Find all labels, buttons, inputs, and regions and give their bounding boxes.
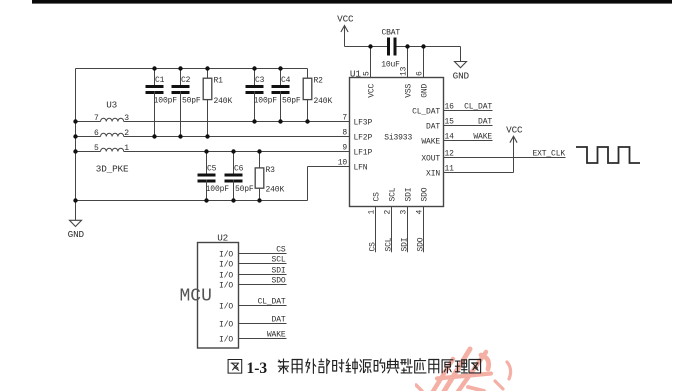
svg-text:CL_DAT: CL_DAT bbox=[412, 107, 440, 116]
junction pin6/rail bbox=[421, 44, 425, 48]
svg-text:CL_DAT: CL_DAT bbox=[464, 103, 492, 112]
svg-text:3: 3 bbox=[124, 114, 129, 123]
junction C3/row7 bbox=[252, 119, 256, 123]
svg-text:LF2P: LF2P bbox=[354, 133, 373, 142]
svg-text:WAKE: WAKE bbox=[473, 133, 492, 142]
pin number 12 bbox=[445, 150, 455, 159]
junction rail/row9 bbox=[73, 149, 77, 153]
power VCC right bbox=[506, 125, 523, 144]
svg-text:I/O: I/O bbox=[219, 320, 233, 329]
pin number 9 bbox=[342, 144, 347, 153]
wire net EXT_CLK from XOUT bbox=[444, 150, 566, 159]
reference U3 bbox=[106, 100, 117, 111]
capacitor C3 100pF bbox=[246, 69, 278, 122]
svg-text:Si3933: Si3933 bbox=[384, 134, 412, 143]
svg-text:VCC: VCC bbox=[368, 83, 377, 97]
wire net CS (MCU) bbox=[239, 246, 287, 255]
wire U1 pin5 VCC bbox=[370, 47, 372, 78]
pin number 8 bbox=[342, 129, 347, 138]
pin number 5 bbox=[363, 71, 372, 76]
svg-text:50pF: 50pF bbox=[282, 97, 301, 106]
svg-text:2: 2 bbox=[124, 129, 129, 138]
svg-text:VCC: VCC bbox=[337, 14, 354, 25]
svg-text:8: 8 bbox=[342, 129, 347, 138]
capacitor C5 100pF bbox=[198, 152, 230, 201]
svg-text:WAKE: WAKE bbox=[421, 137, 440, 146]
svg-text:SDO: SDO bbox=[421, 187, 430, 201]
junction pin13/rail bbox=[405, 44, 409, 48]
wire net SCL (MCU) bbox=[239, 256, 287, 265]
wire VCC rail right bbox=[397, 47, 461, 62]
svg-text:9: 9 bbox=[342, 144, 347, 153]
wire bottom rail bbox=[76, 200, 308, 202]
wire net CS (U1 pin1) bbox=[368, 207, 377, 253]
junction pin5/rail bbox=[368, 44, 372, 48]
svg-text:1: 1 bbox=[124, 144, 129, 153]
capacitor C6 50pF bbox=[225, 152, 254, 201]
svg-text:R2: R2 bbox=[314, 77, 324, 86]
wire top rail bbox=[76, 68, 308, 70]
junction R3/row9 bbox=[257, 149, 261, 153]
clock waveform bbox=[576, 147, 640, 163]
wire net SDI (MCU) bbox=[239, 267, 287, 276]
wire row pin9 bbox=[76, 151, 350, 153]
svg-text:13: 13 bbox=[400, 66, 409, 76]
value 3D_PKE bbox=[96, 163, 129, 174]
junction C2/row8 bbox=[178, 134, 182, 138]
svg-text:MCU: MCU bbox=[180, 286, 212, 306]
pin number 14 bbox=[445, 133, 455, 142]
pin number 13 bbox=[400, 66, 409, 76]
svg-text:VSS: VSS bbox=[405, 83, 414, 97]
svg-text:50pF: 50pF bbox=[235, 185, 254, 194]
inductor U3 winding pins 5-1 bbox=[94, 144, 129, 153]
svg-text:CL_DAT: CL_DAT bbox=[258, 298, 286, 307]
svg-text:I/O: I/O bbox=[219, 271, 233, 280]
svg-text:DAT: DAT bbox=[272, 316, 286, 325]
svg-text:10: 10 bbox=[338, 159, 348, 168]
junction R1/row8 bbox=[205, 134, 209, 138]
ground GND top right bbox=[453, 62, 470, 82]
svg-text:WAKE: WAKE bbox=[267, 331, 286, 340]
svg-text:10uF: 10uF bbox=[381, 60, 400, 69]
wire net WAKE (MCU) bbox=[239, 331, 287, 340]
svg-text:VCC: VCC bbox=[506, 125, 523, 136]
capacitor C4 50pF bbox=[272, 69, 301, 122]
pin number 4 bbox=[416, 210, 425, 215]
pin number 1 bbox=[368, 210, 377, 215]
svg-text:I/O: I/O bbox=[219, 302, 233, 311]
inductor U3 winding pins 7-3 bbox=[94, 114, 129, 123]
svg-text:C5: C5 bbox=[207, 164, 217, 173]
svg-text:DAT: DAT bbox=[478, 118, 492, 127]
junction rail/row7 bbox=[73, 119, 77, 123]
pin number 6 bbox=[416, 71, 425, 76]
inductor U3 winding pins 6-2 bbox=[94, 129, 129, 138]
capacitor C1 100pF bbox=[146, 69, 178, 137]
wire net DAT bbox=[444, 118, 493, 127]
wire net SCL (U1 pin2) bbox=[384, 207, 393, 253]
junction rail/bot bbox=[73, 198, 77, 202]
pin number 3 bbox=[400, 210, 409, 215]
svg-text:100pF: 100pF bbox=[154, 97, 178, 106]
wire U1 pin6 GND bbox=[423, 47, 425, 78]
svg-text:SCL: SCL bbox=[272, 256, 286, 265]
svg-text:SDI: SDI bbox=[405, 188, 414, 202]
wire left rail bbox=[75, 69, 77, 221]
wire pin10 to bottom rail bbox=[308, 167, 350, 201]
svg-text:7: 7 bbox=[94, 114, 99, 123]
wire U1 pin13 VSS bbox=[407, 47, 409, 78]
svg-text:GND: GND bbox=[68, 229, 85, 240]
svg-text:SDI: SDI bbox=[272, 267, 286, 276]
resistor R2 240K bbox=[303, 69, 332, 122]
svg-text:240K: 240K bbox=[266, 185, 285, 194]
pin number 15 bbox=[445, 118, 455, 127]
svg-text:EXT_CLK: EXT_CLK bbox=[532, 150, 565, 159]
svg-text:CS: CS bbox=[276, 246, 286, 255]
svg-text:I/O: I/O bbox=[219, 335, 233, 344]
junction C1/top bbox=[152, 66, 156, 70]
resistor R1 240K bbox=[203, 69, 232, 137]
junction C5/row9 bbox=[204, 149, 208, 153]
junction C3/top bbox=[252, 66, 256, 70]
svg-text:SCL: SCL bbox=[389, 187, 398, 201]
svg-text:R1: R1 bbox=[214, 77, 224, 86]
wire VCC rail left bbox=[345, 46, 388, 48]
wire net SDO (MCU) bbox=[239, 277, 287, 286]
svg-text:I/O: I/O bbox=[219, 260, 233, 269]
svg-text:I/O: I/O bbox=[219, 250, 233, 259]
svg-text:6: 6 bbox=[416, 71, 425, 76]
junction C6/row9 bbox=[231, 149, 235, 153]
junction C6/bot bbox=[231, 198, 235, 202]
svg-text:100pF: 100pF bbox=[206, 185, 230, 194]
resistor R3 240K bbox=[255, 152, 284, 201]
pin number 7 bbox=[342, 114, 347, 123]
wire net SDO (U1 pin4) bbox=[416, 207, 425, 253]
power VCC top bbox=[337, 14, 354, 33]
svg-text:SDO: SDO bbox=[272, 277, 286, 286]
svg-text:LF3P: LF3P bbox=[354, 118, 373, 127]
svg-text:U2: U2 bbox=[217, 232, 228, 243]
svg-text:XIN: XIN bbox=[426, 169, 440, 178]
junction R1/top bbox=[205, 66, 209, 70]
svg-text:5: 5 bbox=[363, 71, 372, 76]
svg-text:DAT: DAT bbox=[426, 122, 440, 131]
svg-text:LF1P: LF1P bbox=[354, 148, 373, 157]
svg-text:1-3: 1-3 bbox=[247, 360, 268, 377]
svg-text:240K: 240K bbox=[314, 97, 333, 106]
wire net CL_DAT bbox=[444, 103, 493, 112]
svg-text:CBAT: CBAT bbox=[381, 29, 400, 38]
wire row pin7 bbox=[76, 121, 350, 123]
svg-text:CS: CS bbox=[373, 192, 382, 202]
junction rail/row8 bbox=[73, 134, 77, 138]
wire net CL_DAT (MCU) bbox=[239, 298, 287, 307]
wire net SDI (U1 pin3) bbox=[400, 207, 409, 253]
svg-text:C3: C3 bbox=[255, 76, 265, 85]
svg-text:C4: C4 bbox=[281, 76, 291, 85]
svg-text:50pF: 50pF bbox=[182, 97, 201, 106]
svg-text:U1: U1 bbox=[350, 68, 361, 79]
wire net WAKE bbox=[444, 133, 493, 142]
pin number 2 bbox=[384, 210, 393, 215]
capacitor CBAT 10uF bbox=[381, 29, 400, 70]
svg-text:6: 6 bbox=[94, 129, 99, 138]
op IC U1 Si3933 bbox=[350, 68, 444, 206]
svg-text:XOUT: XOUT bbox=[421, 154, 440, 163]
svg-text:GND: GND bbox=[453, 70, 470, 81]
svg-text:SDI: SDI bbox=[400, 238, 409, 252]
svg-text:CS: CS bbox=[368, 242, 377, 252]
pin number 11 bbox=[445, 165, 455, 174]
svg-text:C1: C1 bbox=[155, 76, 165, 85]
svg-text:R3: R3 bbox=[266, 166, 276, 175]
MCU U2 bbox=[180, 232, 239, 348]
svg-text:C6: C6 bbox=[234, 164, 244, 173]
ground GND left bbox=[68, 220, 85, 240]
wire row pin8 bbox=[76, 136, 350, 138]
svg-text:240K: 240K bbox=[214, 97, 233, 106]
svg-text:C2: C2 bbox=[181, 76, 191, 85]
junction C5/bot bbox=[204, 198, 208, 202]
svg-text:5: 5 bbox=[94, 144, 99, 153]
wire VCC stem bbox=[344, 32, 346, 47]
svg-text:100pF: 100pF bbox=[254, 97, 278, 106]
svg-text:7: 7 bbox=[342, 114, 347, 123]
capacitor C2 50pF bbox=[172, 69, 201, 137]
svg-text:3D_PKE: 3D_PKE bbox=[96, 163, 129, 174]
junction C4/top bbox=[278, 66, 282, 70]
svg-text:GND: GND bbox=[421, 83, 430, 97]
svg-text:I/O: I/O bbox=[219, 281, 233, 290]
wire XIN to VCC bbox=[444, 143, 514, 173]
junction C2/top bbox=[178, 66, 182, 70]
svg-text:U3: U3 bbox=[106, 100, 117, 111]
svg-text:SCL: SCL bbox=[384, 237, 393, 251]
junction C1/row8 bbox=[152, 134, 156, 138]
svg-text:SDO: SDO bbox=[416, 237, 425, 251]
junction C4/row7 bbox=[278, 119, 282, 123]
wire net DAT (MCU) bbox=[239, 316, 287, 325]
pin number 16 bbox=[445, 103, 455, 112]
svg-text:LFN: LFN bbox=[354, 163, 368, 172]
junction R3/bot bbox=[257, 198, 261, 202]
junction R2/row7 bbox=[305, 119, 309, 123]
pin number 10 bbox=[338, 159, 348, 168]
